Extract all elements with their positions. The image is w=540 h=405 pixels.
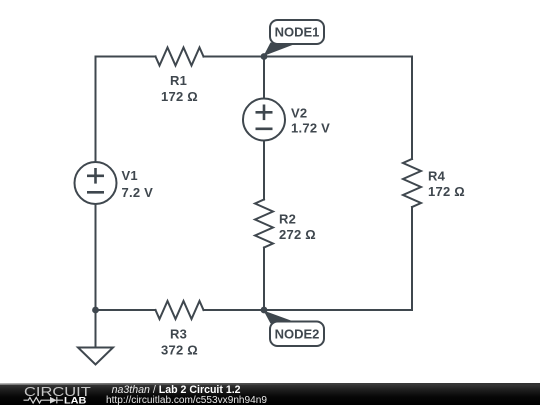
footer bar	[0, 383, 540, 405]
resistor R2	[255, 200, 273, 248]
svg-text:R4: R4	[428, 168, 446, 183]
svg-text:V1: V1	[122, 168, 138, 183]
svg-text:372 Ω: 372 Ω	[161, 342, 198, 357]
resistor R3	[156, 301, 204, 319]
wire bottom rail right segment	[204, 309, 413, 311]
wire top rail left segment	[96, 56, 156, 58]
resistor R4	[403, 159, 421, 207]
wire middle upper	[263, 57, 265, 99]
svg-text:172 Ω: 172 Ω	[428, 184, 465, 199]
svg-text:R2: R2	[279, 211, 296, 226]
node NODE1 flag	[264, 20, 325, 56]
svg-text:1.72 V: 1.72 V	[291, 121, 330, 136]
CircuitLab logo resistor-diode mark	[24, 397, 64, 404]
svg-text:V2: V2	[291, 106, 307, 121]
ground	[78, 310, 113, 365]
svg-text:NODE1: NODE1	[275, 25, 320, 40]
svg-text:LAB: LAB	[64, 395, 87, 405]
junction dot NODE2	[261, 307, 268, 314]
svg-text:172 Ω: 172 Ω	[161, 89, 198, 104]
resistor R1	[156, 48, 204, 66]
wire right rail lower	[411, 207, 413, 310]
wire left rail upper	[95, 57, 97, 163]
wire middle between V2 and R2	[263, 141, 265, 200]
wire right rail upper	[411, 57, 413, 160]
junction dot NODE1	[261, 53, 268, 60]
svg-text:R3: R3	[170, 327, 187, 342]
svg-text:NODE2: NODE2	[275, 327, 320, 342]
voltage source V1	[75, 162, 117, 204]
svg-text:272 Ω: 272 Ω	[279, 227, 316, 242]
junction dot ground node	[92, 307, 99, 314]
wire bottom rail left segment	[96, 309, 156, 311]
wire middle lower	[263, 248, 265, 311]
svg-text:http://circuitlab.com/c553vx9n: http://circuitlab.com/c553vx9nh94n9	[106, 395, 267, 405]
voltage source V2	[243, 99, 285, 141]
svg-text:R1: R1	[170, 73, 187, 88]
svg-text:7.2 V: 7.2 V	[122, 185, 154, 200]
wire top rail right segment	[204, 56, 413, 58]
node NODE2 flag	[264, 311, 325, 347]
wire left rail lower	[95, 204, 97, 310]
